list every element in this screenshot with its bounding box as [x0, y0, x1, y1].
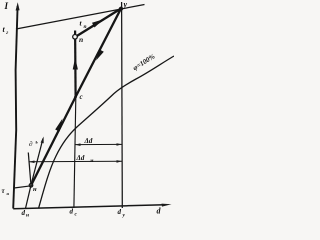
heating line с-п (bold vertical)	[74, 31, 77, 98]
svg-text:н: н	[26, 213, 29, 219]
svg-text:d: d	[70, 208, 74, 216]
svg-text:I: I	[4, 1, 9, 11]
point у junction	[119, 7, 123, 11]
svg-text:у: у	[123, 0, 128, 9]
arrow on п-у toward у	[92, 19, 104, 27]
svg-text:Δd: Δd	[76, 154, 85, 162]
axis d arrowhead	[162, 204, 172, 207]
axis I (vertical)	[13, 6, 17, 209]
Δd right arrow	[117, 143, 123, 146]
svg-text:у: у	[122, 212, 126, 218]
tau_н pointer line	[14, 186, 33, 188]
arrow on с-п pointing up	[73, 58, 78, 70]
svg-text:г: г	[6, 30, 8, 36]
axis d (horizontal)	[13, 205, 165, 209]
line d_у vertical	[121, 2, 124, 208]
Δd left arrow	[75, 143, 81, 146]
dimension line Δd_м	[29, 160, 122, 162]
arrow on с-у toward с	[96, 50, 104, 61]
drying line п-у (bold)	[75, 9, 121, 38]
isotherm line t (from axis through point у)	[16, 5, 145, 30]
point Н circle	[29, 184, 33, 188]
svg-text:d: d	[118, 208, 122, 216]
svg-text:d: d	[22, 209, 26, 217]
axis I arrowhead	[16, 2, 20, 10]
mixing line с-у (bold)	[76, 9, 122, 98]
curve φ=100%	[39, 56, 175, 209]
drop line d_н below Н	[26, 186, 31, 208]
point с	[74, 96, 77, 99]
svg-text:Δd: Δd	[84, 137, 93, 145]
line d_с vertical	[74, 98, 76, 208]
arrowhead of ∂ line	[41, 137, 44, 144]
mixing line Н-с (bold)	[31, 97, 76, 186]
svg-text:н: н	[33, 186, 37, 193]
dimension line Δd	[75, 143, 122, 145]
witness line above Н	[28, 153, 31, 186]
svg-text:м: м	[89, 159, 94, 164]
Δd_м right arrow	[117, 160, 123, 163]
svg-text:с: с	[80, 93, 83, 101]
svg-text:∂: ∂	[29, 140, 33, 148]
svg-text:п: п	[79, 35, 83, 44]
arrow on Н-с toward с	[55, 119, 62, 132]
point п circle	[73, 35, 78, 40]
thin line from Н with arrow (∂)	[31, 139, 43, 186]
paper background	[0, 0, 174, 220]
Δd_м left arrow	[29, 161, 35, 164]
